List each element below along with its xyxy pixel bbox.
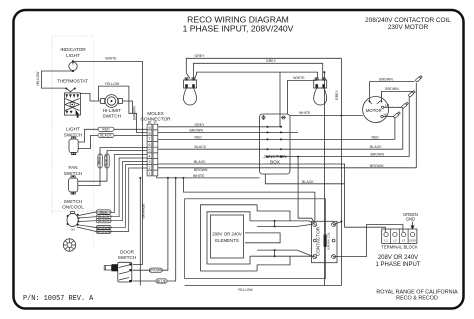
- svg-text:RED: RED: [97, 156, 101, 164]
- ground lead GREEN GND: [403, 212, 418, 230]
- wire WHITE from indicator light to door-switch drop: [73, 57, 143, 62]
- wire thermostat to hi-limit switch: [80, 94, 101, 102]
- oven light L2: [314, 78, 327, 105]
- svg-text:BROWN: BROWN: [149, 269, 163, 273]
- label BLACK (fan, vertical): [104, 154, 109, 168]
- svg-text:208V OR 240V: 208V OR 240V: [212, 232, 242, 237]
- svg-text:WHITE: WHITE: [105, 57, 117, 61]
- svg-text:RED: RED: [102, 128, 110, 132]
- wire BROWN branch to contactor top-left: [297, 156, 314, 222]
- spade connector 1: [415, 75, 422, 82]
- wire YELLOW riser to molex row1: [129, 86, 133, 113]
- svg-text:GND: GND: [409, 239, 417, 243]
- svg-text:GREY: GREY: [266, 59, 277, 63]
- oven cavity box: [185, 199, 326, 279]
- motor M1: [363, 97, 390, 123]
- wire RED row3 molex to motor spade drop: [158, 135, 395, 139]
- svg-text:RECO & RECOD: RECO & RECOD: [396, 296, 438, 302]
- svg-text:BLUE: BLUE: [157, 279, 167, 283]
- wire HI motor to spade 4: [383, 116, 394, 118]
- oven light L1: [184, 78, 197, 105]
- dashed control-panel boundary: [52, 36, 93, 250]
- svg-text:ORANGE: ORANGE: [141, 203, 145, 219]
- svg-text:BROWN: BROWN: [132, 106, 136, 120]
- heating elements E1 (middle loop): [207, 212, 250, 264]
- wire GREY lamp1 to lamp2: [194, 59, 323, 78]
- svg-text:CONTACTOR: CONTACTOR: [315, 226, 320, 256]
- svg-text:8: 8: [149, 132, 151, 136]
- wire BROWN junction-box branch to motor spade drop: [268, 156, 410, 158]
- svg-text:WHITE: WHITE: [293, 76, 305, 80]
- thermostat feed V junction: [65, 88, 76, 92]
- svg-text:BROWN: BROWN: [190, 129, 204, 133]
- wire BLUE door switch riser: [133, 178, 176, 283]
- switch on/cool S4: [62, 199, 84, 232]
- svg-text:BLACK: BLACK: [302, 180, 314, 184]
- svg-text:BLK: BLK: [100, 210, 107, 214]
- wire WHITE junction box to motor: [290, 111, 363, 116]
- wire spade2 drop BROWN: [408, 97, 410, 157]
- spade connector 2: [408, 90, 415, 97]
- wire WHITE lamp2 to junction box: [288, 76, 317, 114]
- svg-text:208/240V COIL: 208/240V COIL: [326, 232, 330, 250]
- wire spade1 drop BROWN: [415, 83, 417, 168]
- svg-text:L2: L2: [393, 239, 397, 243]
- on/cool wire 5 BROWN: [77, 168, 147, 234]
- title: RECO WIRING DIAGRAM: [183, 14, 294, 33]
- svg-text:FAN: FAN: [68, 165, 77, 170]
- svg-text:RED: RED: [372, 135, 380, 139]
- svg-text:ON/COOL: ON/COOL: [62, 205, 84, 210]
- svg-text:MOLEX: MOLEX: [147, 111, 164, 116]
- wire indicator light to left rail: [42, 71, 74, 88]
- svg-text:L3: L3: [402, 239, 406, 243]
- svg-text:RED: RED: [195, 135, 203, 139]
- wire YELLOW from hi-limit node to molex riser: [99, 82, 129, 101]
- svg-text:BROWN: BROWN: [97, 230, 111, 234]
- wire GREY row1 molex to junction box riser: [158, 72, 280, 127]
- svg-text:L1: L1: [384, 239, 388, 243]
- svg-text:THERMOSTAT: THERMOSTAT: [57, 78, 88, 83]
- svg-text:BLACK: BLACK: [194, 160, 206, 164]
- title: contactor coil note: [365, 17, 451, 31]
- wire lamp branch to molex grey riser: [195, 72, 318, 78]
- svg-text:1 PHASE INPUT: 1 PHASE INPUT: [375, 262, 420, 268]
- svg-text:LIGHT: LIGHT: [66, 127, 80, 132]
- wire WHITE drop to door switch: [133, 61, 143, 264]
- wire GREY lamp1 to right drop: [186, 54, 341, 79]
- wire BROWN motor to spade 1: [370, 77, 415, 101]
- svg-text:GREY: GREY: [195, 123, 206, 127]
- fan switch S3: [64, 165, 83, 194]
- wire BLACK row5 molex to motor spade drop: [158, 145, 403, 149]
- svg-text:WHITE: WHITE: [193, 174, 205, 178]
- svg-text:9: 9: [149, 126, 151, 130]
- light switch S2: [64, 127, 83, 155]
- svg-text:DOOR: DOOR: [120, 249, 135, 254]
- svg-text:BOX: BOX: [270, 160, 280, 165]
- svg-text:YELLOW: YELLOW: [105, 82, 120, 86]
- wire element second lead to contactor: [257, 221, 312, 228]
- heating elements E1 (outer loop): [201, 205, 258, 271]
- wire elements left U jumper: [245, 233, 280, 243]
- terminal block TB1: [381, 229, 418, 249]
- svg-text:BROWN: BROWN: [370, 164, 384, 168]
- svg-text:LIGHT: LIGHT: [66, 53, 80, 58]
- svg-text:SWITCH: SWITCH: [103, 113, 122, 118]
- wire element bottom lead staircase to contactor: [250, 255, 314, 271]
- on/cool wire 4 BROWN: [78, 165, 147, 230]
- svg-text:1 PHASE INPUT, 208V/240V: 1 PHASE INPUT, 208V/240V: [183, 24, 294, 34]
- on/cool wire 2 BLACK: [78, 158, 147, 219]
- svg-text:5: 5: [149, 149, 151, 153]
- wire spade4 drop RED: [394, 117, 396, 139]
- svg-text:BLACK: BLACK: [195, 145, 207, 149]
- svg-text:P/N: 10057 REV. A: P/N: 10057 REV. A: [23, 295, 94, 303]
- wire contactor feed rail: [183, 178, 315, 221]
- wire GREY long drop to contactor and yellow rail: [335, 58, 341, 285]
- svg-text:ELEMENTS: ELEMENTS: [215, 238, 239, 243]
- svg-text:SWITCH: SWITCH: [118, 255, 137, 260]
- svg-text:1: 1: [149, 172, 151, 176]
- wire BROWN row2 molex to contactor feed: [158, 129, 298, 133]
- bottom-right maker text: [376, 290, 458, 302]
- contactor K1: [312, 221, 337, 262]
- wire element top lead staircase to contactor: [250, 205, 314, 224]
- label RED (light switch): [98, 127, 114, 131]
- wire coil feed drop: [323, 72, 325, 285]
- thermostat TH1: [57, 78, 88, 117]
- wire BLACK junction box to terminal rail: [265, 174, 344, 184]
- on/cool wire 3 BLACK: [78, 161, 147, 223]
- wire spade3 drop BLACK: [402, 108, 404, 149]
- svg-text:BLACK: BLACK: [370, 145, 382, 149]
- wire LO motor to spade 3: [384, 106, 403, 108]
- door switch S5: [104, 249, 136, 282]
- label RED (fan, vertical): [97, 154, 102, 168]
- svg-text:230V MOTOR: 230V MOTOR: [388, 24, 429, 31]
- svg-text:GREY: GREY: [335, 89, 339, 100]
- molex connector J1: [140, 111, 171, 176]
- svg-text:BLACK: BLACK: [98, 219, 110, 223]
- svg-text:SWITCH: SWITCH: [64, 199, 83, 204]
- wire light switch BLACK to molex: [78, 135, 147, 148]
- on/cool wire 1 BLACK: [78, 155, 147, 216]
- wire hi-limit to molex row2 (BROWN riser): [123, 101, 148, 132]
- heating elements label box: [211, 215, 244, 258]
- svg-text:BLACK: BLACK: [100, 134, 112, 138]
- svg-text:INDICATOR: INDICATOR: [60, 47, 86, 52]
- svg-text:YELLOW: YELLOW: [238, 288, 253, 292]
- label BLACK (light switch): [98, 133, 114, 137]
- svg-text:2: 2: [149, 166, 151, 170]
- wire WHITE row10 molex to junction box: [157, 174, 260, 179]
- svg-text:MOTOR: MOTOR: [366, 108, 382, 113]
- svg-text:4: 4: [149, 154, 151, 158]
- indicator light DS1: [60, 47, 86, 72]
- wire BROWN motor to spade 2: [382, 87, 414, 101]
- wire contactor top-right to grey drop: [334, 222, 342, 225]
- svg-text:7: 7: [149, 137, 151, 141]
- wire element third lead to contactor: [257, 249, 312, 256]
- svg-text:BROWN: BROWN: [385, 87, 399, 91]
- svg-text:GREY: GREY: [194, 54, 205, 58]
- svg-text:BROWN: BROWN: [194, 168, 208, 172]
- svg-text:BLACK: BLACK: [104, 154, 108, 166]
- hi-limit switch S1: [101, 95, 123, 119]
- svg-text:WHITE: WHITE: [299, 111, 311, 115]
- svg-text:BROWN: BROWN: [379, 77, 393, 81]
- wire BROWN door switch riser: [133, 178, 168, 273]
- label 208V input: [375, 255, 420, 268]
- svg-text:YELLOW: YELLOW: [36, 71, 40, 86]
- wire YELLOW bottom rail: [185, 286, 342, 292]
- wire ORANGE left drop: [139, 177, 145, 286]
- svg-text:208V OR 240V: 208V OR 240V: [378, 255, 418, 261]
- svg-text:3: 3: [149, 160, 151, 164]
- wire fan switch RED riser to molex: [78, 148, 147, 186]
- knob dial: [63, 239, 75, 251]
- spade connector 4: [393, 111, 400, 118]
- svg-text:BROWN: BROWN: [371, 153, 385, 157]
- spade connector 3: [401, 102, 408, 109]
- wire contactor bottom-right to terminal L3: [334, 225, 403, 257]
- wire BROWN row8 molex to motor spade drop: [158, 168, 417, 172]
- junction box JB1: [260, 114, 291, 174]
- svg-text:6: 6: [149, 143, 151, 147]
- wire fan switch BLACK riser to molex: [78, 151, 147, 182]
- svg-text:LO: LO: [385, 103, 390, 107]
- wire BLACK row7 molex to terminal block L1: [158, 160, 385, 232]
- svg-text:TERMINAL BLOCK: TERMINAL BLOCK: [381, 244, 418, 249]
- svg-text:GND: GND: [406, 217, 415, 222]
- wire light switch RED to molex: [78, 129, 147, 142]
- svg-text:SWITCH: SWITCH: [64, 171, 83, 176]
- svg-text:ON: ON: [71, 228, 75, 232]
